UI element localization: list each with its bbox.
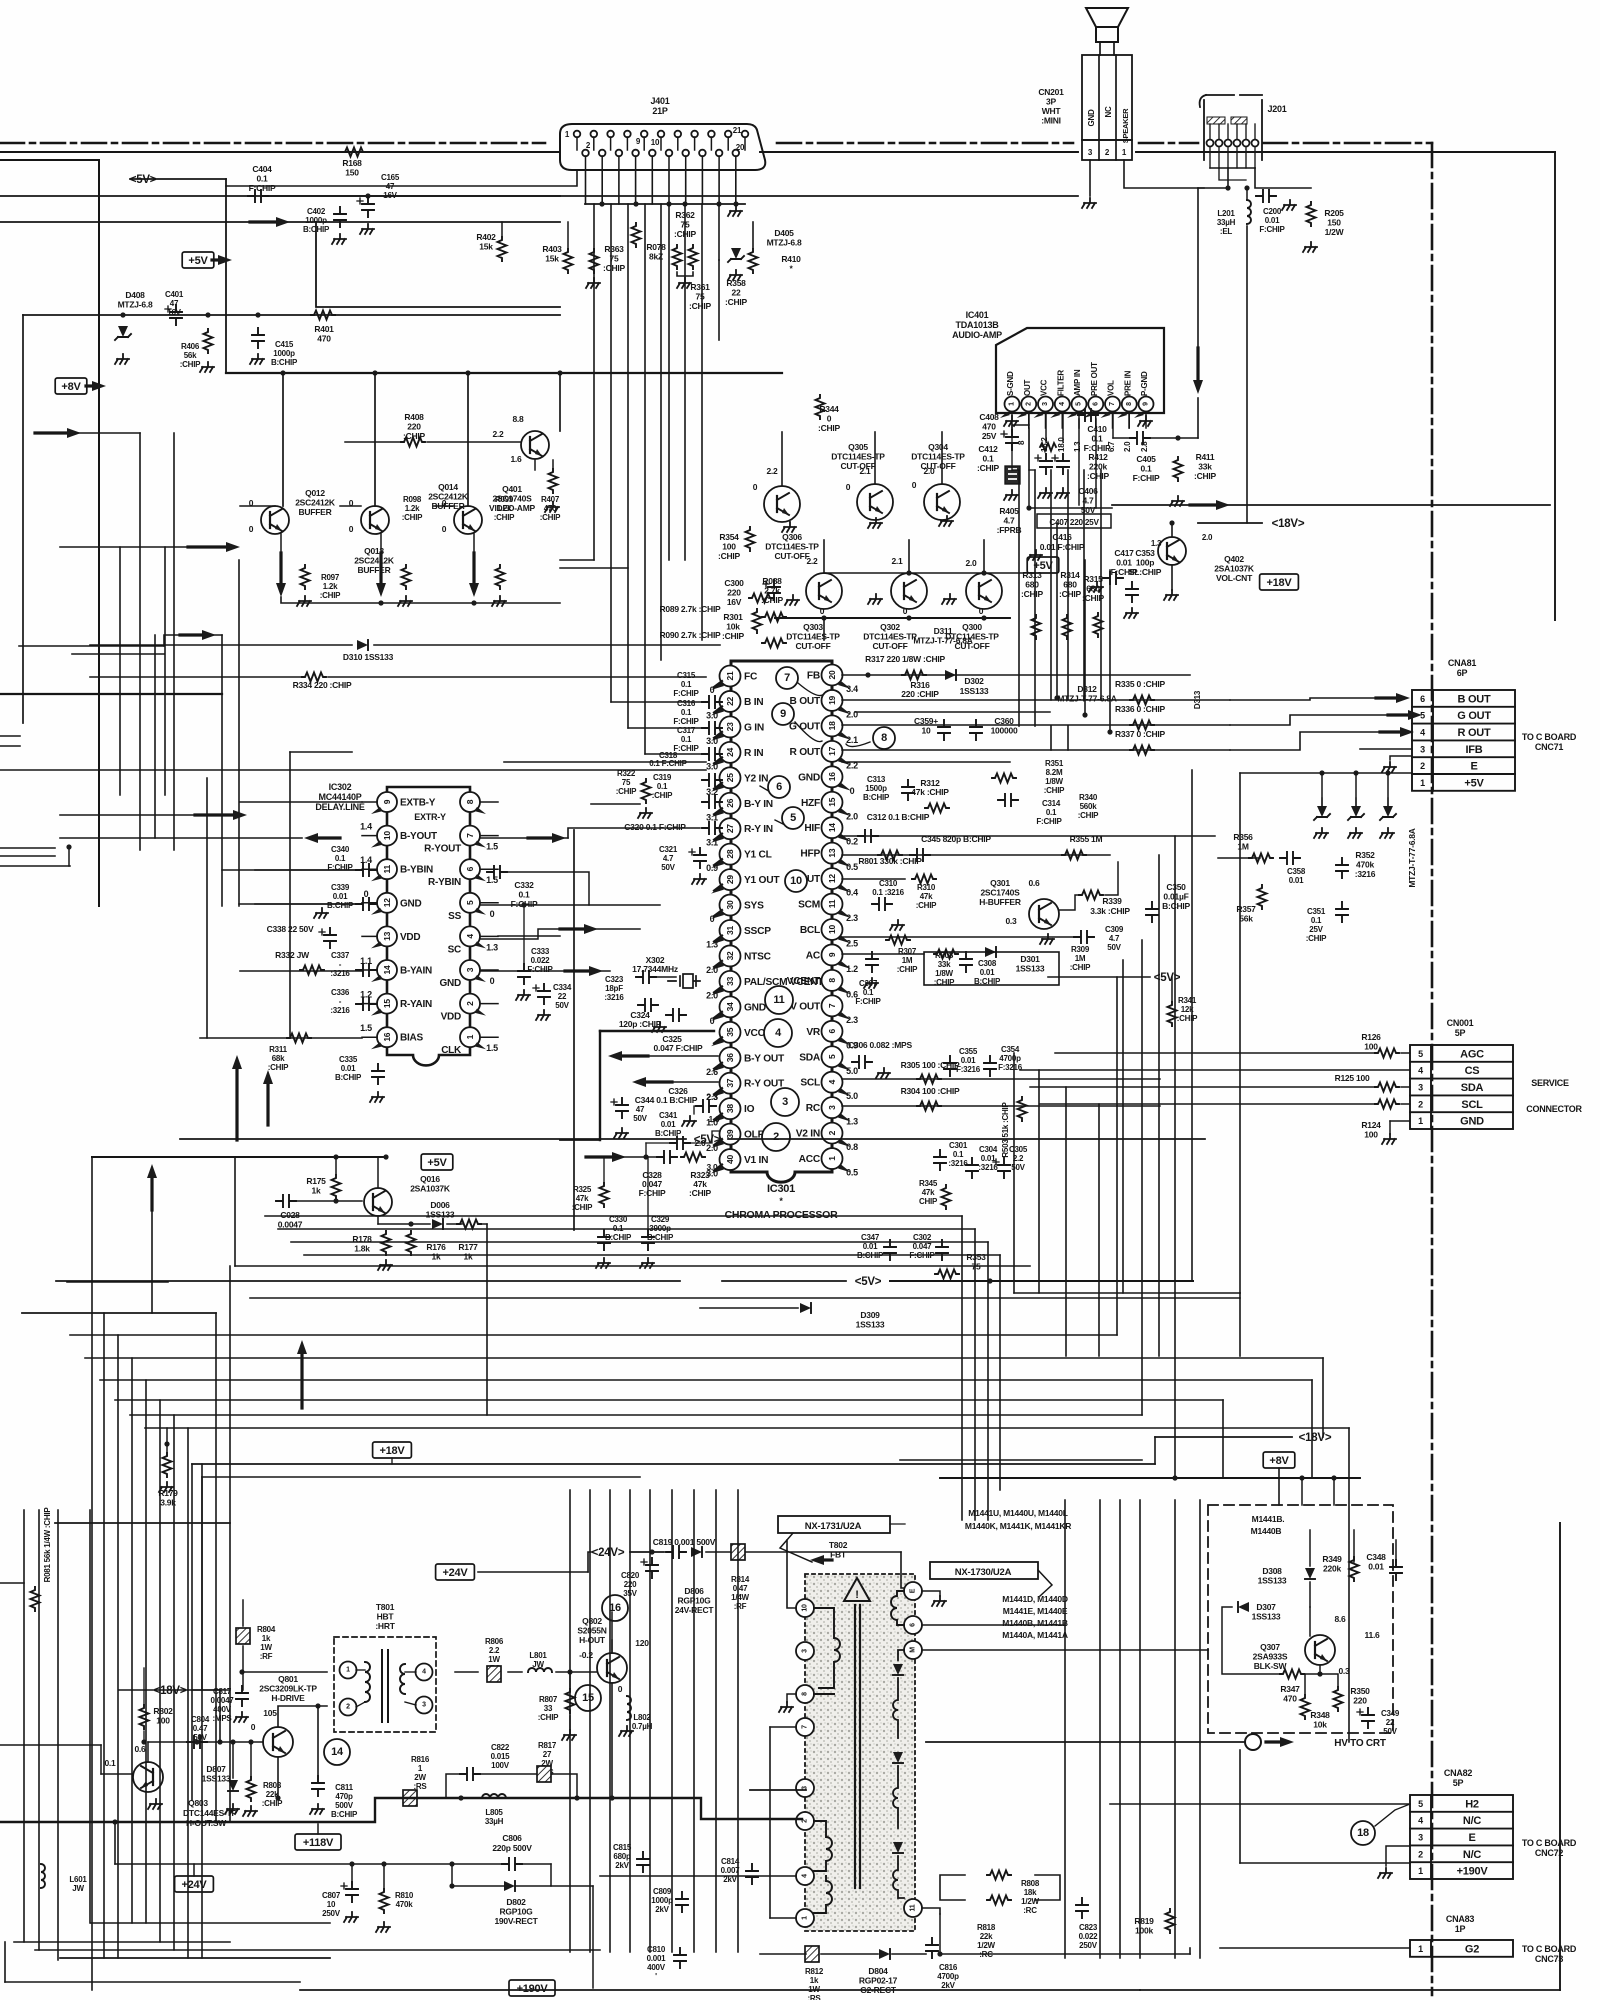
svg-text:47k :CHIP: 47k :CHIP <box>911 787 949 797</box>
IC401 pin 3 <box>1038 397 1053 412</box>
J401 pin 11 <box>658 131 665 138</box>
IC302 pin tick <box>371 941 383 948</box>
IC302 pin 8 <box>460 792 480 812</box>
junction <box>981 570 986 575</box>
svg-text:D310 1SS133: D310 1SS133 <box>343 652 394 662</box>
junction <box>906 570 911 575</box>
IC301 pin 6 <box>822 1021 843 1042</box>
IC302 pin 5 <box>460 893 480 913</box>
J401 pin stem <box>585 156 587 170</box>
svg-text:<5V>: <5V> <box>1154 972 1181 984</box>
wire y1923 <box>91 1922 330 1924</box>
svg-text:EXTR-Y: EXTR-Y <box>414 812 446 822</box>
wire <box>567 222 569 249</box>
capacitor C300 <box>768 580 780 600</box>
IC301 pin 14 <box>822 817 843 838</box>
wire <box>523 905 525 964</box>
J401 pin stem <box>643 137 645 150</box>
svg-text:1.3: 1.3 <box>846 1117 858 1127</box>
wire <box>1387 798 1389 806</box>
ground C333 <box>516 990 530 1000</box>
arrow 8V <box>86 384 94 387</box>
IC301 pin 18 <box>822 715 843 736</box>
wire right edge <box>1554 152 1556 620</box>
svg-text:+5V: +5V <box>188 255 208 267</box>
wire <box>201 1477 203 1690</box>
J401 pin stem <box>694 137 696 150</box>
wire pin7 <box>1112 412 1114 438</box>
arrow left1 <box>35 431 69 434</box>
IC401 pin 6 <box>1088 397 1103 412</box>
IC401 pin tick <box>1050 412 1060 418</box>
resistor R325 <box>600 1183 609 1207</box>
svg-text:G2: G2 <box>1465 1943 1479 1955</box>
board boundary dash-dot line <box>1431 143 1434 1995</box>
svg-text:3: 3 <box>1420 744 1425 754</box>
wire 18V <box>1198 522 1262 524</box>
svg-text:38: 38 <box>725 1104 735 1113</box>
svg-text:E: E <box>1470 761 1477 773</box>
inductor L601 <box>41 1864 45 1888</box>
svg-text:1.3: 1.3 <box>486 942 498 952</box>
wire 118V stub <box>317 1824 319 1834</box>
wire R362 R361 <box>677 272 693 276</box>
wire 24V <box>706 1551 730 1553</box>
wire <box>0 865 70 867</box>
J401 pin stem <box>635 156 637 170</box>
capacitor C350 <box>1146 902 1158 922</box>
IC301 pin tick <box>838 1088 851 1096</box>
svg-text:C8220.015100V: C8220.015100V <box>491 1743 511 1770</box>
svg-text:29: 29 <box>725 875 735 884</box>
IC401 pin wire <box>1112 412 1114 428</box>
svg-text:8: 8 <box>465 799 475 804</box>
svg-text:+5V: +5V <box>1464 777 1484 789</box>
svg-text:4: 4 <box>422 1669 426 1676</box>
capacitor C359 <box>938 720 950 740</box>
svg-text:15: 15 <box>827 797 837 806</box>
junction <box>521 902 526 907</box>
ground D405 <box>728 270 742 280</box>
transistor Q300 <box>966 573 1002 609</box>
junction <box>141 1739 146 1744</box>
resistor R808 <box>987 1871 1011 1880</box>
IC301 pin tick <box>838 910 851 918</box>
zener D313x <box>1383 806 1393 817</box>
resistor R339 <box>1079 891 1103 900</box>
wire pinM <box>922 1649 1208 1651</box>
resistor R801 <box>878 851 902 860</box>
capacitor C317 <box>702 722 722 734</box>
IC302 pin lead <box>481 835 498 837</box>
callout 4 <box>764 1019 792 1047</box>
IC301 pin tick <box>711 1115 724 1123</box>
net label +18V <box>1260 574 1299 590</box>
resistor R304 <box>917 1102 941 1111</box>
capacitor C819 <box>666 1546 686 1558</box>
J401 pin 16 <box>699 150 706 157</box>
fusible resistor R812 <box>805 1946 819 1962</box>
wire <box>1119 1500 1121 1958</box>
wire <box>60 814 195 816</box>
svg-text:3.1: 3.1 <box>706 838 718 848</box>
wire G OUT <box>842 724 1230 726</box>
wire FB <box>842 674 1190 676</box>
wire x120 <box>119 547 121 795</box>
svg-text:C416: C416 <box>1052 532 1072 542</box>
balloon arrows <box>760 683 870 829</box>
IC301 pin tick <box>711 911 724 919</box>
wire <box>1122 960 1124 1293</box>
J401 pin 17 <box>708 131 715 138</box>
junction <box>574 1795 579 1800</box>
svg-text:T801HBT:HRT: T801HBT:HRT <box>375 1602 395 1631</box>
wire to C811 <box>317 1706 319 1779</box>
svg-text:12: 12 <box>827 874 837 883</box>
svg-text:0: 0 <box>442 524 447 534</box>
wire <box>1390 1120 1410 1122</box>
IC301 pin 39 <box>720 1124 741 1145</box>
capacitor C312 <box>858 830 878 842</box>
resistor R348 <box>1301 1695 1310 1719</box>
junction <box>557 370 562 375</box>
capacitor C402 <box>334 207 346 227</box>
transistor Q301 <box>1029 899 1059 929</box>
IC301 pin 35 <box>720 1022 741 1043</box>
wire <box>316 222 560 307</box>
junction <box>120 312 125 317</box>
resistor R411 <box>1174 457 1183 481</box>
wire AGC <box>1055 1052 1375 1054</box>
wire x207 <box>206 778 208 1038</box>
IC302 pin tick <box>474 807 486 814</box>
wire <box>1098 1104 1100 1356</box>
capacitor C318 <box>702 774 722 786</box>
net label +8V <box>1263 1452 1295 1468</box>
wire <box>316 221 560 223</box>
wire <box>60 546 188 548</box>
wire fan <box>159 1400 161 1942</box>
capacitor C360 <box>970 720 982 740</box>
svg-text:C819 0.001 500V: C819 0.001 500V <box>653 1537 716 1547</box>
arrow <box>180 633 204 636</box>
capacitor C347 <box>884 1240 896 1260</box>
IC302 pin 13 <box>377 926 397 946</box>
wire G2 long <box>940 1953 1190 1955</box>
svg-text:0: 0 <box>710 914 715 924</box>
resistor R311 <box>287 1034 311 1043</box>
svg-text:V OUT: V OUT <box>790 1001 821 1012</box>
svg-text:R317 220 1/8W :CHIP: R317 220 1/8W :CHIP <box>865 654 945 664</box>
IC302 pin 14 <box>377 960 397 980</box>
svg-text:PRE OUT: PRE OUT <box>1090 362 1099 396</box>
diode D307 <box>1238 1602 1249 1612</box>
wire J401 <box>668 204 670 560</box>
capacitor C333 <box>518 964 530 984</box>
wire fan <box>201 1464 203 1958</box>
svg-text:1: 1 <box>802 1916 809 1920</box>
J201 contact wire <box>1227 147 1229 168</box>
resistor R357 <box>1258 885 1267 909</box>
svg-text:24: 24 <box>725 747 735 756</box>
IC302 pin lead <box>362 835 377 837</box>
resistor R126 <box>1375 1049 1399 1058</box>
wire <box>1401 1052 1410 1054</box>
wire L201 down <box>1246 226 1248 523</box>
svg-text:+118V: +118V <box>303 1837 334 1849</box>
wire <box>737 1490 739 1952</box>
wire <box>855 711 1050 713</box>
wire <box>823 618 825 640</box>
wire <box>374 373 376 506</box>
svg-text:2.2: 2.2 <box>766 466 778 476</box>
wire <box>351 1864 353 1884</box>
junction <box>567 1669 572 1674</box>
capacitor C810 <box>674 1948 686 1968</box>
junction <box>649 1549 654 1554</box>
resistor R097 <box>301 565 310 589</box>
svg-text:C320 0.1 F:CHIP: C320 0.1 F:CHIP <box>624 822 686 832</box>
IC401 pin tick <box>1000 412 1010 418</box>
svg-text:2.0: 2.0 <box>846 709 858 719</box>
junction <box>164 1441 169 1446</box>
IC401 pin tick <box>1017 412 1027 418</box>
J401 pin 15 <box>691 131 698 138</box>
diode D006 <box>432 1219 443 1229</box>
svg-text:13: 13 <box>382 931 392 940</box>
IC302 pin tick <box>474 1009 486 1016</box>
svg-text:3: 3 <box>1042 402 1049 406</box>
arrow Q012 emitter <box>279 553 282 585</box>
T802 pin M <box>904 1641 922 1659</box>
junction <box>1026 505 1031 510</box>
IC301 pin tick <box>711 1064 724 1072</box>
svg-text:C32318pF:3216: C32318pF:3216 <box>604 975 624 1002</box>
svg-text:IFB: IFB <box>1466 744 1483 756</box>
svg-text:R30833k1/8W:CHIP: R30833k1/8W:CHIP <box>934 951 955 987</box>
junction <box>821 615 826 620</box>
IC302 pin lead <box>481 902 498 904</box>
svg-text:220p 500V: 220p 500V <box>492 1843 532 1853</box>
wire Q801 collector <box>278 1706 327 1727</box>
svg-text:P-GND: P-GND <box>1140 371 1149 396</box>
IC301 pin 33 <box>720 971 741 992</box>
net label +8V <box>55 378 87 394</box>
wire <box>649 1490 651 1952</box>
wire GND12 feed <box>255 903 362 905</box>
svg-text:SCM: SCM <box>798 900 820 911</box>
junction <box>1082 712 1087 717</box>
resistor R176 <box>407 1231 416 1255</box>
resistor R323 <box>681 1153 705 1162</box>
wire <box>345 441 404 443</box>
J201 wire <box>1219 168 1246 180</box>
diode D310 <box>357 640 368 650</box>
ground D408 <box>115 354 129 364</box>
svg-text:R335 0 :CHIP: R335 0 :CHIP <box>1115 679 1165 689</box>
svg-text:R819100k: R819100k <box>1134 1916 1154 1936</box>
capacitor C319 <box>702 796 722 808</box>
IC302 pin 3 <box>460 960 480 980</box>
IC301 pin 19 <box>822 690 843 711</box>
svg-text:0: 0 <box>618 1684 623 1694</box>
junction <box>633 201 638 206</box>
wire long y770 <box>0 769 706 771</box>
svg-text:R349220k: R349220k <box>1322 1554 1342 1574</box>
svg-text:CONNECTOR: CONNECTOR <box>1526 1104 1582 1114</box>
svg-text:9: 9 <box>827 952 837 957</box>
IC IC302 delay line body <box>387 787 470 1065</box>
ground R097 <box>297 596 311 606</box>
svg-text:6: 6 <box>827 1029 837 1034</box>
svg-text:9: 9 <box>780 708 786 720</box>
capacitor C334 <box>538 984 550 1004</box>
ground R407 <box>545 502 559 512</box>
wire to G IN <box>628 727 706 729</box>
wire Q402 emitter <box>1171 565 1173 590</box>
ground IC401 pin1 <box>1004 416 1018 426</box>
capacitor C815 <box>637 1852 649 1872</box>
connector CN201 3P <box>1082 55 1132 140</box>
IC301 pin tick <box>838 1063 851 1071</box>
resistor R345 <box>942 1185 951 1209</box>
svg-text:R339: R339 <box>1102 896 1122 906</box>
svg-text:V1 IN: V1 IN <box>744 1155 768 1166</box>
T801 pin1 <box>340 1662 357 1679</box>
ground C807 <box>344 1912 358 1922</box>
capacitor C310 <box>872 898 892 910</box>
IC302 pin lead <box>481 868 498 870</box>
diode D302 <box>945 670 956 680</box>
arrow G OUT <box>1388 713 1410 716</box>
junction <box>1319 770 1324 775</box>
resistor R819 <box>1166 1909 1175 1933</box>
svg-text:8: 8 <box>1126 402 1133 406</box>
J401 wire down <box>701 170 703 204</box>
capacitor C353 <box>1126 582 1138 602</box>
svg-text:23: 23 <box>725 722 735 731</box>
ground CNA82 <box>1378 1868 1392 1878</box>
IC301 pin 24 <box>720 742 741 763</box>
zener D312x <box>1351 806 1361 817</box>
wire <box>1198 187 1228 189</box>
IC401 pin 9 <box>1139 397 1154 412</box>
svg-text:G OUT: G OUT <box>1457 710 1491 722</box>
svg-text:2.1: 2.1 <box>891 556 903 566</box>
wire B OUT <box>842 699 1230 701</box>
junction <box>1317 1671 1322 1676</box>
capacitor C820 <box>646 1558 658 1578</box>
J401 pin stem <box>677 137 679 150</box>
ground C409 <box>1038 488 1052 498</box>
wire <box>718 204 720 260</box>
J401 pin stem <box>744 137 746 150</box>
ground C324 <box>652 1022 666 1032</box>
svg-text:Y1 CL: Y1 CL <box>744 850 772 861</box>
IC301 pin 9 <box>822 944 843 965</box>
svg-text:3.0: 3.0 <box>706 736 718 746</box>
J401 pin 19 <box>725 131 732 138</box>
J401 pin stem <box>601 156 603 170</box>
wire <box>1083 470 1085 700</box>
T802 pin 1 <box>796 1909 814 1927</box>
IC301 pin tick <box>838 1165 851 1173</box>
wire Q303 base <box>591 803 640 805</box>
wire R334 line2 <box>328 676 706 678</box>
wire <box>405 1702 416 1705</box>
capacitor C822 <box>460 1768 480 1780</box>
wire 18V bus <box>192 1463 1155 1465</box>
junction <box>682 201 687 206</box>
junction <box>381 1861 386 1866</box>
wire <box>645 1143 647 1157</box>
svg-text:7: 7 <box>827 1003 837 1008</box>
ground C335 <box>370 1092 384 1102</box>
T802 pin 2 <box>796 1812 814 1830</box>
transistor Q012 <box>261 506 289 534</box>
wire <box>700 1307 798 1309</box>
IC302 pin tick <box>474 1042 486 1049</box>
svg-text:IO: IO <box>744 1104 755 1115</box>
junction <box>1353 770 1358 775</box>
svg-text:35: 35 <box>725 1027 735 1036</box>
svg-text:4: 4 <box>1418 1066 1423 1076</box>
svg-text:27: 27 <box>725 824 735 833</box>
wire 5V long <box>56 1280 680 1282</box>
wire pin6 <box>922 1624 1065 1626</box>
IC301 pin tick <box>838 1139 851 1147</box>
svg-text:1: 1 <box>1418 1116 1423 1126</box>
wire <box>1105 862 1118 895</box>
ground C310 <box>890 920 904 930</box>
resistor R350 <box>1334 1687 1343 1711</box>
callout 5 <box>782 807 804 829</box>
IC302 pin tick <box>371 807 383 814</box>
svg-text:GND: GND <box>744 1002 766 1013</box>
wire drive base bus <box>148 1741 263 1743</box>
svg-text:R355 1M: R355 1M <box>1070 834 1103 844</box>
IC301 pin 21 <box>720 666 741 687</box>
svg-text:NX-1731/U2A: NX-1731/U2A <box>805 1521 862 1532</box>
svg-text:2.0: 2.0 <box>1123 441 1132 452</box>
arrow <box>565 969 591 972</box>
arrow up x237 <box>235 1067 238 1140</box>
wire J401 <box>593 204 595 560</box>
capacitor C817 <box>236 1686 248 1706</box>
J201 pin <box>1243 140 1250 147</box>
IC302 pin tick <box>474 874 486 881</box>
svg-text:R412220k:CHIP: R412220k:CHIP <box>1087 452 1109 481</box>
svg-text:10: 10 <box>802 1604 809 1612</box>
wire <box>60 1957 330 1959</box>
arrow left2 <box>188 545 228 548</box>
wire top bus <box>1136 151 1555 153</box>
wire CS <box>1020 1069 1410 1071</box>
IC301 pin tick <box>711 1166 724 1174</box>
capacitor C417 <box>1103 572 1123 584</box>
T802 pin 10 <box>796 1599 814 1617</box>
wire pinE <box>922 1591 940 1596</box>
J401 pin 9 <box>641 131 648 138</box>
wire y1229 <box>278 1228 975 1230</box>
svg-text:15: 15 <box>382 999 392 1008</box>
resistor R179 <box>163 1453 172 1477</box>
junction <box>1172 1475 1177 1480</box>
svg-text:16: 16 <box>827 772 837 781</box>
J401 pin 14 <box>682 150 689 157</box>
capacitor C355 <box>944 1056 956 1076</box>
svg-text:1.4: 1.4 <box>360 822 372 832</box>
